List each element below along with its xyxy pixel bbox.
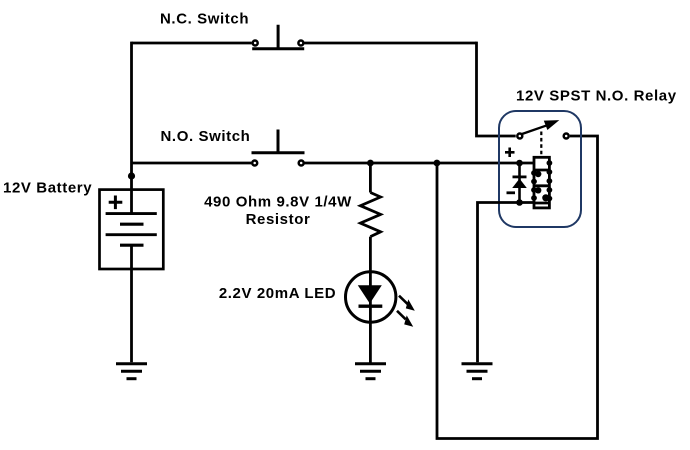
- wire: battery negative down to ground: [130, 245, 133, 362]
- relay actuation dashed link: [540, 132, 542, 157]
- node: junction dot resistor branch: [367, 160, 374, 167]
- node: junction dot battery top: [128, 172, 135, 179]
- LED D1 triangle: [358, 285, 382, 303]
- relay K1 outline rounded box: [499, 111, 581, 227]
- relay coil L1 left bumps: [531, 170, 537, 201]
- relay switch terminal circle left: [517, 134, 522, 139]
- svg-text:2.2V 20mA LED: 2.2V 20mA LED: [219, 285, 336, 302]
- switch S2 terminal circle right: [299, 161, 304, 166]
- svg-text:N.O. Switch: N.O. Switch: [161, 128, 251, 145]
- battery plate short 2: [120, 244, 144, 247]
- wire: resistor to LED: [369, 237, 372, 364]
- LED D1 emission arrow 1: [399, 296, 415, 311]
- LED D1 cathode bar: [359, 305, 383, 308]
- wire: left vertical bus from top wire into battery: [130, 42, 133, 213]
- relay coil L1 inner winding blobs: [535, 171, 549, 202]
- relay plus label: [505, 148, 515, 158]
- wire: top N.C. feeder right segment: [304, 42, 476, 45]
- diode D2 cathode bar: [513, 175, 527, 178]
- relay coil L1 right bumps: [547, 160, 553, 201]
- wire: resistor branch drop: [369, 163, 372, 193]
- wire: top N.C. feeder left segment: [132, 42, 252, 45]
- switch S1 terminal circle right: [298, 41, 303, 46]
- battery plate long 2: [106, 233, 157, 236]
- node: junction dot relay minus: [516, 199, 523, 206]
- wire: relay N.O. contact out, down, bottom return, up to junction: [437, 135, 599, 440]
- wire: N.O. row right segment to relay coil: [304, 162, 534, 165]
- switch S1 terminal circle left: [253, 41, 258, 46]
- LED D1 circle: [346, 272, 396, 322]
- relay coil L1 body: [534, 157, 549, 208]
- diode D2 triangle: [512, 179, 527, 188]
- svg-text:N.C. Switch: N.C. Switch: [160, 11, 249, 28]
- relay coil L1 dividers: [534, 170, 549, 203]
- ground: battery ground symbol: [116, 364, 147, 379]
- relay switch terminal circle right: [564, 134, 569, 139]
- wire: relay minus bus out and down to ground: [478, 201, 535, 362]
- svg-text:12V SPST N.O. Relay: 12V SPST N.O. Relay: [516, 88, 677, 105]
- relay switch armature arrow: [522, 120, 559, 134]
- battery plus sign: [109, 196, 123, 210]
- node: junction dot relay plus: [516, 160, 523, 167]
- diode D2 flyback vertical wire: [518, 163, 521, 203]
- resistor R1 zigzag: [360, 193, 380, 237]
- svg-text:Resistor: Resistor: [246, 211, 311, 228]
- switch S1 N.C. pushbutton bar: [252, 25, 304, 49]
- switch S2 terminal circle left: [252, 161, 257, 166]
- relay minus label: [507, 191, 516, 194]
- ground: relay ground symbol: [462, 364, 493, 379]
- switch S2 N.O. pushbutton bar: [252, 130, 305, 153]
- LED D1 emission arrow 2: [397, 311, 413, 327]
- battery plate long 1: [106, 212, 157, 215]
- svg-text:12V Battery: 12V Battery: [3, 180, 92, 197]
- wire: right feeder down from top wire to relay common: [475, 42, 516, 136]
- ground: LED ground symbol: [355, 364, 386, 379]
- node: junction dot right branch: [434, 160, 441, 167]
- svg-text:490 Ohm 9.8V 1/4W: 490 Ohm 9.8V 1/4W: [204, 194, 352, 211]
- wire: N.O. row left segment: [132, 162, 252, 165]
- battery plate short 1: [120, 223, 144, 226]
- battery B1 outline box: [100, 190, 164, 269]
